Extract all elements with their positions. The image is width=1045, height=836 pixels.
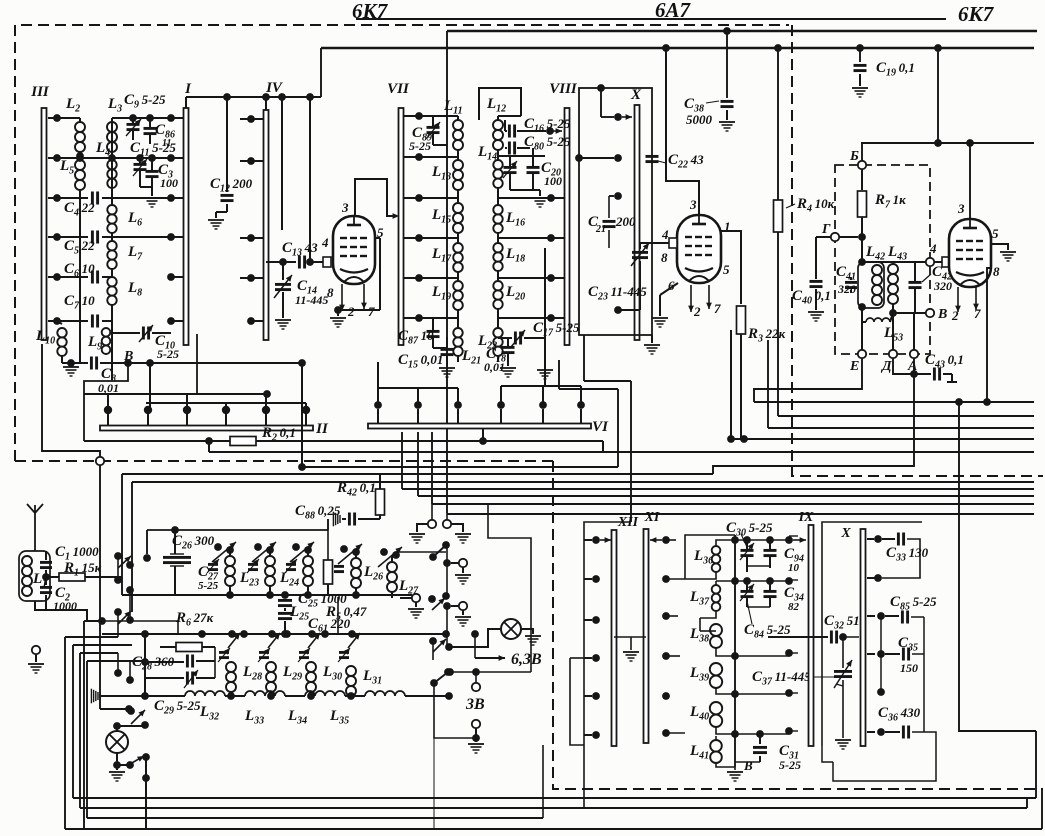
contact	[443, 602, 451, 610]
wire	[434, 683, 476, 738]
wire	[570, 657, 584, 659]
box X section	[822, 522, 922, 746]
node Г	[831, 233, 839, 241]
wire B row	[123, 362, 302, 364]
svg-text:7: 7	[974, 306, 981, 321]
inductor L43	[888, 264, 898, 274]
svg-text:3В: 3В	[465, 696, 485, 713]
inductor L15	[453, 203, 463, 213]
svg-text:320: 320	[837, 282, 856, 296]
trimmer C11 5-25	[134, 163, 147, 166]
svg-text:XII: XII	[617, 515, 639, 530]
switch bar I	[184, 108, 189, 345]
capacitor C28 360	[141, 658, 149, 666]
svg-text:5-25: 5-25	[779, 758, 801, 772]
wire screen bus y31	[447, 30, 1037, 33]
contacts XII left	[592, 536, 600, 544]
tube V3 6К7	[949, 219, 991, 287]
trimmer C34 82	[743, 577, 751, 585]
wire	[417, 524, 428, 532]
capacitor C22 43	[646, 155, 659, 158]
svg-text:7: 7	[368, 304, 375, 319]
wire	[79, 190, 81, 324]
ground	[216, 211, 227, 213]
svg-text:5-25: 5-25	[157, 347, 179, 361]
switch bar III	[42, 108, 47, 340]
wire	[61, 356, 63, 363]
wire plate V3	[969, 143, 971, 219]
inductor L13	[453, 160, 463, 170]
trimmer	[248, 563, 258, 566]
capacitor C26 300	[171, 526, 179, 534]
inductor L32	[185, 691, 225, 696]
ground	[500, 367, 516, 369]
inductor L7	[107, 241, 116, 250]
node Е	[858, 350, 866, 358]
node on dashed border	[96, 457, 104, 465]
trimmer	[334, 565, 344, 568]
wire Д down	[893, 358, 914, 374]
wire right loop	[923, 617, 925, 732]
svg-text:Е: Е	[849, 359, 859, 374]
dashed chassis border bottom	[553, 461, 1043, 789]
ground	[70, 363, 72, 366]
ground	[439, 367, 455, 369]
rotor feed X	[597, 84, 605, 92]
wire	[145, 757, 147, 778]
wire bus y416	[778, 415, 1034, 417]
capacitor C6 10	[57, 276, 88, 278]
capacitor C15 0,01	[441, 348, 454, 351]
wire bank VIII spine	[497, 116, 499, 120]
dashed chassis border top-left	[15, 25, 789, 461]
contacts of bar VI	[374, 401, 382, 409]
ground	[652, 317, 668, 319]
wire coil leads	[716, 540, 735, 546]
switch contact pair L24	[254, 543, 262, 551]
wire top row	[112, 117, 171, 119]
wire	[446, 606, 448, 634]
node А	[910, 350, 918, 358]
switch arrows row2	[228, 630, 236, 638]
inductor L41	[710, 740, 722, 752]
svg-text:XI: XI	[644, 510, 660, 525]
wire pin6 V2	[660, 283, 678, 295]
wire	[735, 655, 789, 657]
ground	[475, 738, 477, 742]
ground	[409, 533, 425, 535]
capacitor C25 1000	[281, 591, 289, 599]
trimmer arrows row2	[219, 651, 229, 654]
svg-text:150: 150	[900, 661, 918, 675]
resistor R42 0,1	[379, 474, 381, 489]
capacitor C85 5-25	[877, 612, 885, 620]
svg-text:B: B	[743, 758, 753, 773]
inductor L2	[75, 122, 85, 132]
contact	[443, 559, 451, 567]
svg-text:100: 100	[160, 176, 178, 190]
ground	[719, 121, 735, 123]
dashed oscillator box	[835, 165, 930, 354]
switch arm	[429, 637, 437, 645]
svg-text:8: 8	[661, 250, 668, 265]
wire	[84, 620, 100, 622]
inductor L37	[712, 585, 721, 594]
svg-text:III: III	[30, 84, 50, 100]
resistor R1 15к	[42, 573, 50, 581]
wire rail y530	[147, 529, 328, 531]
wire vertical x447	[446, 31, 448, 513]
wire	[892, 262, 894, 264]
inductor L16	[493, 205, 502, 214]
wire pin1 V2	[721, 231, 741, 304]
wire	[544, 338, 546, 368]
ground IF	[734, 767, 736, 770]
wire	[208, 441, 210, 452]
svg-text:11-445: 11-445	[295, 293, 328, 307]
trimmer C10 5-25	[112, 332, 140, 334]
wire nested stubs	[65, 636, 118, 638]
capacitor C18 0,01	[502, 346, 515, 349]
inductor L18	[493, 243, 502, 252]
wire bus y428	[768, 427, 1034, 429]
rotor arrow XI	[650, 539, 662, 541]
wire heater loop	[450, 671, 531, 673]
svg-text:3: 3	[689, 197, 697, 212]
wire	[488, 504, 531, 672]
terminal	[443, 520, 451, 528]
inductor L14	[493, 160, 502, 169]
capacitor C16 5-25	[504, 120, 506, 131]
terminal 3В	[475, 672, 477, 682]
wire bus y439	[731, 438, 1034, 440]
svg-text:5: 5	[723, 262, 730, 277]
svg-text:VI: VI	[592, 419, 609, 435]
inductor L27	[387, 562, 397, 572]
chassis hatch	[97, 692, 99, 700]
capacitor C4 22	[57, 197, 88, 199]
switch contact pair L25	[292, 543, 300, 551]
variable capacitor C14 11-445	[282, 262, 284, 280]
wire riser x618	[559, 388, 618, 390]
wire bottom bus 1	[73, 797, 1036, 799]
capacitor C38 5000	[723, 27, 731, 35]
wire	[666, 578, 685, 580]
wire	[959, 402, 1036, 731]
wire	[839, 236, 858, 238]
wire bus y402	[754, 401, 1034, 403]
inductor L22	[493, 328, 502, 337]
switch bar XII	[612, 530, 617, 746]
ground	[644, 344, 660, 346]
node В	[893, 312, 926, 314]
contacts of bar IV	[247, 115, 255, 123]
wire block top	[584, 522, 631, 735]
wire plate V2	[666, 48, 699, 215]
wire	[432, 639, 434, 660]
inductor L40	[710, 702, 722, 714]
svg-text:8: 8	[327, 285, 334, 300]
ground	[539, 190, 541, 196]
svg-text:200: 200	[615, 214, 636, 229]
capacitor C32 51	[768, 636, 828, 638]
capacitor C3 100	[146, 170, 159, 173]
svg-text:0,01: 0,01	[484, 360, 505, 374]
wire	[285, 695, 305, 697]
svg-text:В: В	[937, 307, 947, 322]
contact	[785, 536, 793, 544]
capacitor C19 0,1	[859, 48, 861, 62]
grid cap V1	[323, 257, 331, 267]
wire	[735, 580, 789, 582]
wire row y595	[122, 594, 412, 596]
inductor L26	[351, 558, 361, 568]
switch bar X top	[635, 105, 640, 340]
wire cathode V1	[375, 237, 380, 239]
wire plate V1	[355, 179, 396, 216]
trimmer C27 5-25	[208, 563, 218, 566]
wire bottom bus 4	[65, 828, 1042, 830]
svg-text:5000: 5000	[686, 112, 713, 127]
capacitor C87 10	[427, 330, 440, 333]
inductor L42	[858, 262, 884, 308]
switch arm	[428, 595, 436, 603]
capacitor C13 43	[298, 256, 301, 269]
inductor L5	[75, 160, 85, 170]
switch contacts left column	[114, 552, 122, 560]
ground	[1000, 251, 1016, 253]
wire bank VII spine	[419, 115, 458, 117]
box IF coils	[685, 535, 735, 579]
ground	[455, 574, 471, 576]
wire	[396, 551, 446, 553]
capacitor C21 200	[608, 196, 610, 218]
contacts of bar III	[53, 114, 61, 122]
wire	[309, 97, 311, 262]
inductor L20	[493, 281, 502, 290]
inductor L24	[265, 556, 275, 566]
wire	[451, 524, 463, 532]
terminal	[428, 520, 436, 528]
wire	[117, 556, 119, 580]
inductor L17	[453, 243, 463, 253]
wire	[431, 504, 433, 520]
wire bars I-IV top	[186, 96, 321, 98]
ground	[455, 533, 471, 535]
contacts of bar I	[167, 114, 175, 122]
wire	[225, 695, 245, 697]
svg-text:IX: IX	[798, 510, 814, 525]
ground	[808, 311, 824, 313]
wire	[433, 738, 435, 829]
resistor R4 10к	[777, 48, 779, 200]
inductor L29	[266, 662, 276, 672]
ground	[275, 319, 291, 321]
wire	[214, 647, 216, 678]
lamp Л1	[117, 725, 145, 727]
inductor L19	[453, 281, 463, 291]
svg-text:6,3В: 6,3В	[511, 651, 542, 668]
wire bottom bus 2	[80, 807, 1027, 809]
inductor L36	[712, 546, 721, 555]
node Б	[858, 161, 866, 169]
wire left riser	[42, 344, 100, 457]
tube V2 6А7	[677, 215, 721, 283]
svg-text:82: 82	[788, 601, 800, 613]
wire bus y504	[432, 503, 1034, 505]
wire row y634	[102, 633, 446, 635]
inductor L12	[493, 120, 503, 130]
svg-text:3: 3	[341, 200, 349, 215]
ground	[330, 317, 346, 319]
wire bus y496	[418, 495, 1034, 497]
contacts of bar VIII	[547, 194, 555, 202]
wire	[445, 692, 453, 700]
resistor R6 27к	[144, 634, 146, 647]
wire	[100, 708, 129, 710]
wire collector 2	[146, 402, 306, 404]
inductor L28	[226, 662, 236, 672]
wire row y696	[100, 695, 185, 697]
switch bar VI	[368, 424, 591, 429]
svg-text:II: II	[315, 421, 329, 437]
trimmer C9 5-25	[127, 123, 140, 126]
switch bar X2	[861, 529, 866, 746]
svg-text:4: 4	[661, 227, 669, 242]
ground	[408, 608, 424, 610]
svg-text:100: 100	[544, 174, 562, 188]
wire collector 1	[84, 393, 267, 395]
capacitor C35 150	[877, 650, 885, 658]
capacitor C88 0,25	[379, 515, 381, 519]
wire bus y452	[209, 451, 1034, 453]
svg-text:6К7: 6К7	[958, 2, 995, 26]
switch bar II	[100, 426, 313, 431]
capacitor C34b	[764, 590, 777, 593]
wire А down	[713, 358, 914, 474]
rotor arrow XII	[600, 539, 611, 541]
switch contact pair L27	[380, 548, 388, 556]
ground terminal	[32, 646, 40, 654]
resistor R7 1к	[858, 191, 867, 217]
wire collector VI	[378, 387, 458, 389]
wire plate bus y48	[321, 47, 1034, 50]
inductor L3	[107, 122, 117, 132]
trimmer C31 5-25	[756, 730, 764, 738]
wire second row	[57, 157, 171, 159]
svg-text:3: 3	[957, 201, 965, 216]
svg-text:Г: Г	[821, 222, 831, 237]
wire	[116, 753, 118, 765]
wire bus y489	[402, 488, 1034, 490]
ground	[455, 616, 471, 618]
wire grid row V1	[266, 261, 296, 263]
ground	[537, 369, 553, 371]
svg-text:4: 4	[929, 241, 937, 256]
svg-text:5: 5	[992, 226, 999, 241]
dashed chassis border right	[792, 25, 1043, 476]
svg-text:2: 2	[347, 304, 355, 319]
trimmer C29 5-25	[145, 677, 184, 679]
capacitor C1 1000	[45, 551, 47, 560]
inductor L34	[305, 691, 345, 696]
tube V1 6К7	[333, 216, 375, 284]
wire	[861, 143, 863, 161]
inductor L9	[102, 328, 111, 337]
switch bar VIII	[565, 108, 570, 345]
wire grid V2	[640, 242, 669, 244]
ground	[144, 197, 160, 199]
contacts of bar II	[104, 406, 112, 414]
ground	[835, 739, 851, 741]
contacts XI right	[662, 536, 670, 544]
svg-text:2: 2	[693, 304, 701, 319]
wire E down	[754, 358, 862, 402]
node Д	[889, 350, 897, 358]
cathode arrows V1	[341, 284, 343, 311]
svg-text:320: 320	[933, 279, 952, 293]
wire pin8 V3	[987, 268, 991, 402]
contacts IX	[789, 535, 798, 537]
capacitor C80 5-25	[505, 147, 507, 149]
wire rows VIII	[498, 115, 521, 117]
capacitor C94 10	[764, 549, 777, 552]
switch contact pair L23	[214, 543, 222, 551]
box VIII-X	[579, 88, 652, 335]
wire bottom bus 3	[87, 817, 543, 819]
wire	[433, 347, 447, 349]
inductor L1 box	[19, 551, 50, 601]
wire box left risers	[121, 474, 123, 595]
wire bus y482	[132, 481, 1034, 483]
wire top label rail	[356, 18, 946, 20]
trimmer C17 5-25	[498, 337, 512, 339]
inductor L39	[710, 663, 722, 675]
switch contact pair L26	[340, 545, 348, 553]
wire link	[337, 597, 339, 634]
wire 6,3В	[474, 634, 476, 658]
cathode arrows V2	[690, 285, 692, 312]
inductor L21	[453, 328, 462, 337]
inductor L31	[346, 666, 356, 676]
inductor L4	[107, 160, 116, 169]
inductor L30	[306, 662, 316, 672]
capacitor C41 320	[845, 281, 857, 284]
trimmer C30 5-25	[743, 536, 751, 544]
switch bar VII	[399, 108, 404, 345]
inductor L6	[107, 205, 116, 214]
wire plate line V3	[861, 142, 1034, 144]
contact	[785, 649, 793, 657]
wire nested left risers	[64, 637, 66, 829]
svg-text:Б: Б	[849, 149, 859, 164]
switch arm	[444, 668, 452, 676]
contact row X3	[609, 195, 614, 197]
grid cap V2	[669, 238, 677, 248]
inductor L38	[710, 624, 722, 636]
capacitor C61 220	[278, 612, 292, 615]
svg-text:4: 4	[321, 235, 329, 250]
switch bar XI	[644, 529, 649, 743]
wire B riser	[84, 363, 128, 441]
wire	[442, 630, 450, 638]
resistor R3 22к	[737, 306, 746, 334]
inductor L10	[57, 321, 62, 324]
wire	[446, 545, 448, 563]
wire	[735, 733, 755, 735]
trimmer	[286, 563, 296, 566]
variable capacitor C23 11-445	[632, 251, 648, 254]
